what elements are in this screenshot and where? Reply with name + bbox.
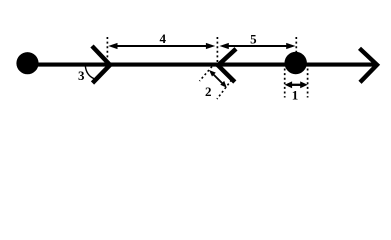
svg-text:2: 2 xyxy=(205,84,212,99)
svg-text:3: 3 xyxy=(78,68,85,83)
svg-text:1: 1 xyxy=(292,87,299,102)
svg-text:5: 5 xyxy=(250,32,257,47)
svg-text:4: 4 xyxy=(159,31,166,46)
